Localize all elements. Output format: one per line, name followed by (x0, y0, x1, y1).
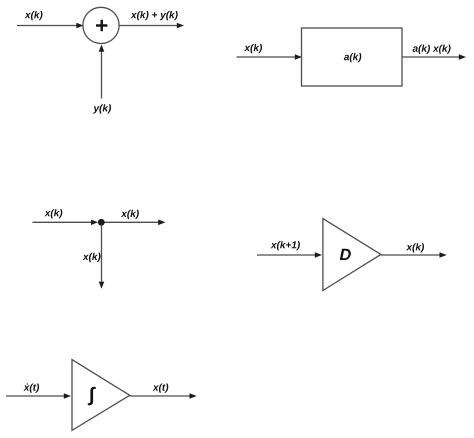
label x(k) input (244, 44, 262, 53)
label xdot(t) input (23, 384, 39, 393)
gain block rectangle (302, 28, 403, 86)
label x(k) right (121, 210, 139, 219)
arrowhead right (158, 220, 165, 226)
wire: input line to gain block (237, 56, 296, 58)
label x(k) branch (83, 253, 101, 262)
plus sign inside summing junction (96, 20, 107, 31)
delay triangle (323, 219, 381, 291)
arrowhead output (190, 393, 197, 399)
arrowhead output (459, 54, 466, 60)
wire: output of gain block (402, 56, 460, 58)
wire: output of integrator (130, 395, 190, 397)
arrowhead into summing junction (76, 23, 83, 29)
wire: branch line down (101, 225, 103, 283)
wire: input line to delay (257, 254, 316, 256)
summing junction circle (83, 7, 119, 43)
label x(t) output (153, 384, 169, 393)
wire: incoming line (33, 221, 93, 223)
wire: output of summing junction (119, 25, 178, 27)
arrowhead into node (91, 220, 98, 225)
arrowhead into integrator (64, 393, 71, 399)
wire: input line to integrator (6, 395, 65, 397)
label y(k) (93, 104, 111, 113)
arrowhead into gain block (295, 54, 302, 60)
label a(k) x(k) (413, 45, 451, 54)
node dot (pickoff point) (98, 219, 105, 226)
label a(k) inside block (344, 53, 362, 62)
wire: input line to summing junction (17, 25, 78, 27)
label x(k) + y(k) (131, 11, 178, 20)
arrowhead output (177, 23, 184, 29)
arrowhead into delay (315, 252, 322, 258)
arrowhead down (99, 282, 105, 289)
label x(k+1) input (271, 241, 300, 250)
label D inside delay triangle (340, 249, 351, 260)
label x(k) output (406, 243, 424, 252)
label x(k) input (25, 11, 43, 20)
arrowhead up into summing junction (99, 45, 105, 52)
arrowhead output (440, 252, 447, 258)
wire: output of delay (381, 254, 440, 256)
integrator triangle (72, 360, 130, 431)
integral sign inside integrator (88, 387, 96, 406)
label x(k) left (44, 209, 62, 218)
wire: outgoing line right (105, 221, 159, 223)
wire: y(k) vertical input (101, 51, 103, 99)
